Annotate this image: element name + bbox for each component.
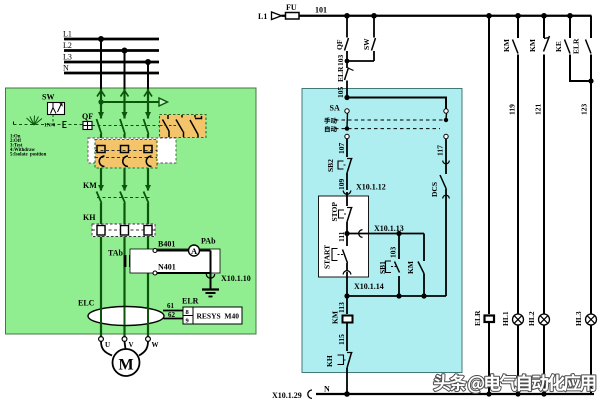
button STOP NC [330,202,353,222]
breaker QF drawout cross box [83,122,92,130]
wire DCS drop [445,189,447,296]
E bracket symbol [63,122,67,128]
svg-text:L3: L3 [63,53,72,62]
aux linkage dashed drop [174,138,176,147]
node 111 junction [344,231,349,236]
node SA auto left dot [345,126,349,130]
aux contact 2 [176,115,184,137]
node seal branch split [396,231,401,236]
node SB1 bottom junction [396,293,401,298]
wire ELC secondary 61 [163,310,183,312]
wire into STOP [346,192,348,206]
svg-text:101: 101 [315,6,327,15]
bus N wire [64,72,159,75]
motor terminal U [99,337,104,342]
ammeter PAb [189,245,200,256]
selector SA right top contact [444,109,448,113]
wire 103 branch drop [398,234,400,260]
wire 123 [590,55,592,315]
wire 113 upper [346,272,348,314]
wire phase A vertical runs [100,89,102,337]
svg-text:KM: KM [83,181,97,190]
aux QF contact [335,16,349,55]
node KE line tap [567,13,573,19]
ELC core balance CT ellipse [88,307,164,326]
ground symbol [202,290,219,297]
svg-text:QF: QF [82,112,93,121]
thermal element block box [95,140,157,169]
node QF branch junction [344,13,350,19]
svg-text:START: START [323,245,332,269]
motor terminal W [146,337,151,342]
wire SA top link [347,98,446,109]
svg-text:KH: KH [325,355,334,367]
motor terminal V [122,337,127,342]
heater element phase A [97,146,105,167]
svg-text:U: U [105,341,110,349]
svg-text:TAb: TAb [108,249,124,258]
wire 117 [445,139,447,161]
wire L3 drop [147,62,149,89]
wire SB1 lower [398,276,400,296]
wire 105 [346,81,348,98]
node SW branch junction [371,13,377,19]
wire N bottom [316,393,594,395]
node L3 tap junction [145,59,151,65]
aux contact 1 [163,115,170,137]
wire phase C vertical runs [147,89,149,337]
overload element phase A [97,226,105,236]
button SB1 NO [378,261,400,274]
SW linkage dashed drop [52,115,54,125]
contact KM seal-in NO [406,261,424,274]
thermal block linkage dashes [95,151,157,158]
svg-text:V: V [129,341,134,349]
node N401 terminal circle [153,271,157,275]
svg-text:KM: KM [502,39,511,52]
svg-text:PAb: PAb [201,237,216,246]
PE arrow symbol [159,98,168,106]
svg-text:121: 121 [534,104,543,116]
button START NO [323,245,348,269]
relay RESYS M40 box [193,307,242,324]
wire KM aux drop [423,234,425,262]
contact KM NO lamp1 [502,39,518,53]
main power enclosure (green) [6,88,257,334]
svg-text:L1: L1 [63,30,72,39]
wire HL1 to N [517,325,519,394]
selector SA left blade [346,114,349,128]
svg-text:SA: SA [330,104,340,113]
aux contact block box [160,115,207,138]
heater backdrop box [88,138,176,163]
svg-text:KM: KM [331,311,340,324]
svg-text:HL2: HL2 [527,311,536,326]
SA auto label [325,126,337,132]
wire L2 drop [124,51,126,90]
wire ELR relay line lower [488,323,490,395]
relay contact ELR [336,66,354,82]
svg-text:X10.1.14: X10.1.14 [354,282,384,291]
svg-text:FU: FU [286,3,297,12]
wire seal bottom bar [347,295,446,297]
operating linkage dashed line [14,122,85,125]
svg-text:L2: L2 [63,41,72,50]
overload element phase B [121,226,129,236]
svg-text:107: 107 [337,143,346,155]
node SA manual right dot [444,118,448,122]
aux SW contact [347,16,376,61]
aux contact 3 NC [190,115,202,137]
node merge junction [588,78,593,83]
wire HL2 line top [543,16,545,38]
terminal X10.1.13 plug [359,230,363,238]
wire B401 [155,250,189,252]
wire ELC secondary 62 [164,318,184,320]
svg-text:SB2: SB2 [326,159,335,172]
svg-text:KM: KM [528,39,537,52]
node ELR line tap [486,13,492,19]
wire 109 [346,173,348,190]
button SB2 NC [326,159,353,174]
heater element phase B [121,146,129,167]
drawout plug prongs [97,91,152,97]
svg-text:X10.1.10: X10.1.10 [221,274,251,283]
watermark logo text [434,374,596,393]
SA manual position dashed [335,119,446,121]
svg-text:B401: B401 [158,240,175,249]
contact DCS [430,160,449,199]
svg-text:X10.1.29: X10.1.29 [272,391,302,400]
heater element phase C [144,146,152,167]
contact KE NO [554,40,570,54]
svg-text:SB1: SB1 [378,261,387,274]
CT TAb bars [124,255,132,267]
wire meter right drop [210,251,212,290]
svg-text:M: M [119,357,134,374]
wire V to motor [125,342,126,350]
wire W to motor [139,342,148,356]
svg-text:STOP: STOP [330,202,339,222]
node PE tap junction [98,99,103,104]
breaker QF linkage dashed [92,125,160,127]
svg-text:117: 117 [436,145,445,156]
pushbutton station box [319,196,369,277]
contactor KM arrowheads [98,185,151,191]
relay ELR coil [473,310,494,326]
svg-text:105: 105 [336,87,345,99]
wire KE line top [569,16,571,38]
fuse FU [286,13,300,20]
contactor KM linkage dashed [97,197,150,199]
wire control feeder 101 [282,15,592,17]
selector SA right blade [445,114,448,120]
node L1 tap junction [98,36,104,42]
svg-text:ELR: ELR [473,310,482,326]
contact ELR NO [572,38,592,54]
contact KH NC thermal [325,353,353,369]
svg-text:103: 103 [336,55,345,67]
svg-text:ELR: ELR [182,297,199,306]
svg-text:HL1: HL1 [501,311,510,326]
node KM aux bottom junction [421,293,426,298]
wire phases through ELC [101,307,148,326]
svg-text:N: N [63,64,69,73]
selector SA right bottom contact [444,134,448,138]
wire ammeter to corner [200,250,211,252]
svg-text:119: 119 [508,104,517,115]
terminal X10.1.14 plug [343,271,351,275]
svg-text:HL3: HL3 [574,311,583,326]
node SW rejoin junction [345,59,350,64]
position list text [10,135,47,158]
node N junction main [344,391,350,397]
motor M [113,349,140,376]
svg-text:L1: L1 [258,12,267,21]
wire HL2 to N [543,325,545,394]
node ELR to N junction [486,391,491,396]
svg-text:1N/4: 1N/4 [44,123,55,129]
node L2 tap junction [122,48,128,54]
terminal X10.1.10 plug [206,274,214,278]
overload element phase C [144,226,152,236]
overload KH linkage dashes [92,229,155,231]
switch SW box [48,103,65,115]
L1 source arrow [272,12,282,20]
coil KM [331,311,353,324]
wire 121 [543,55,545,315]
svg-text:61: 61 [167,302,175,310]
wire PE horizontal [101,101,159,103]
terminal X10.1.29 plug [308,390,312,398]
wire ELR contact branch top [590,16,592,38]
svg-text:5:Isolate position: 5:Isolate position [10,153,47,158]
node HL1 line tap [515,13,521,19]
wire ELR relay line upper [488,16,490,314]
node HL2 line tap [541,13,547,19]
wire KE to merge [570,55,591,82]
lamp HL1 [501,311,524,326]
bus L3 wire [64,61,159,64]
svg-text:SW: SW [42,93,54,102]
wire HL1 line top [517,16,519,38]
aux linkage dashes inside [160,125,178,127]
manual crank fan symbol [27,116,43,126]
wire L1 drop [100,39,102,89]
selector SA left bottom contact [345,134,349,138]
svg-text:RESYS M40: RESYS M40 [197,312,240,321]
node HL2 to N junction [541,391,546,396]
svg-text:X10.1.12: X10.1.12 [356,183,386,192]
contactor KM pole blades [97,192,149,204]
wire U to motor [101,342,112,356]
overload KH box [92,224,155,237]
svg-text:ELR: ELR [572,38,581,54]
svg-text:N: N [324,385,330,394]
svg-text:109: 109 [337,179,346,191]
wire START lower [346,263,348,271]
contact KM NC lamp2 [528,36,550,52]
control enclosure (cyan) [302,89,462,373]
wire 119 [517,55,519,315]
breaker QF pole blades [97,119,149,134]
svg-text:A: A [191,246,198,256]
SA auto position dashed [335,128,440,130]
wire 111 [346,222,348,246]
bus L1 wire [64,38,159,41]
svg-text:N401: N401 [158,263,176,272]
svg-text:62: 62 [168,311,176,319]
svg-text:115: 115 [337,334,346,345]
svg-text:QF: QF [335,39,344,50]
lamp HL3 [574,311,597,326]
svg-text:103: 103 [389,247,398,259]
relay ELR terminal box 8/9 [183,307,193,325]
wire HL3 to N [590,325,592,394]
wire 103 [346,55,348,68]
metering loop backdrop [130,249,220,273]
SA manual label [324,118,336,124]
node seal bottom left junction [344,293,349,298]
node HL1 to N junction [515,391,520,396]
node B401 terminal circle [153,249,157,253]
wire phase B vertical runs [123,89,125,337]
svg-text:KM: KM [406,261,415,274]
svg-text:SW: SW [362,38,371,50]
wire KM aux lower [423,274,425,297]
svg-text:KH: KH [83,213,96,222]
node SA feed junction [344,95,349,100]
wire N401 [155,272,211,274]
terminal X10.1.12 plug [343,191,351,195]
svg-text:KE: KE [554,41,563,52]
svg-text:ELC: ELC [78,299,95,308]
QF pole arrowheads [98,112,151,119]
lamp HL2 [527,311,550,326]
wire 107 [346,139,348,158]
svg-text:123: 123 [580,104,589,116]
wire to N [346,368,348,394]
svg-text:ELR: ELR [336,66,345,82]
wire 111 to KM branch [347,233,424,235]
selector SA left top contact [345,109,349,113]
svg-text:W: W [152,341,159,349]
svg-text:DCS: DCS [430,182,439,197]
wire 115 [346,323,348,352]
bus L2 wire [64,49,159,52]
